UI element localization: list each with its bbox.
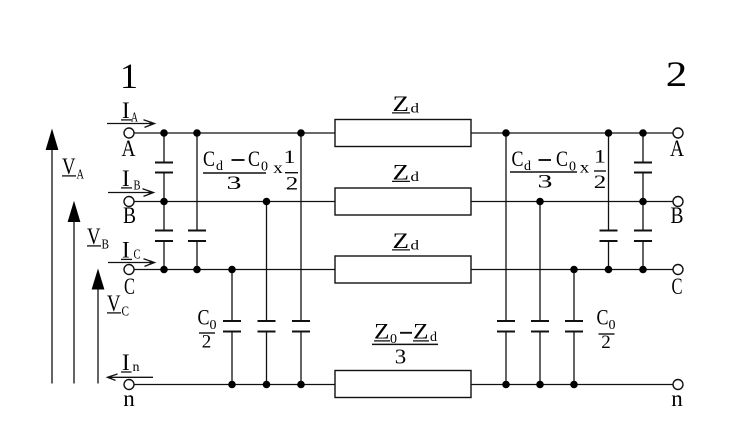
junction wire C x=232 <box>228 266 236 274</box>
label (Cd-C0)/3 x 1/2 left <box>203 146 298 195</box>
junction wire A x=164 <box>160 129 168 137</box>
junction wire C x=574 <box>570 266 578 274</box>
terminal n1 <box>124 380 134 390</box>
capacitor Cbc right (B-C) <box>634 231 652 270</box>
capacitor Cac left (A-C) <box>188 133 206 270</box>
svg-text:2: 2 <box>594 172 607 193</box>
svg-text:B: B <box>123 203 136 228</box>
svg-text:1: 1 <box>284 147 296 168</box>
svg-text:C: C <box>556 146 568 171</box>
svg-text:d: d <box>430 330 437 345</box>
svg-text:C: C <box>134 248 141 263</box>
junction wire n x=574 <box>570 381 578 389</box>
label Zd box A <box>392 91 419 117</box>
svg-text:2: 2 <box>666 54 688 94</box>
svg-text:n: n <box>133 360 140 375</box>
junction wire C x=608.5 <box>605 266 613 274</box>
capacitor Can right (A-n) <box>497 133 515 385</box>
svg-text:d: d <box>411 170 420 185</box>
capacitor Cab left (A-B) <box>155 133 173 230</box>
label C0/2 left <box>198 305 217 353</box>
junction wire A x=643 <box>639 129 647 137</box>
svg-text:A: A <box>131 111 139 126</box>
junction wire B x=164 <box>160 198 168 206</box>
svg-text:d: d <box>411 102 420 117</box>
label I_n <box>121 350 140 375</box>
svg-text:B: B <box>671 203 684 228</box>
wire B right <box>471 201 673 203</box>
svg-text:Z: Z <box>413 319 429 344</box>
svg-text:3: 3 <box>227 173 242 194</box>
capacitor Cac right (A-C) <box>600 133 618 270</box>
capacitor Can left (A-n) <box>292 133 310 385</box>
label V_C <box>107 291 129 320</box>
svg-text:C: C <box>248 146 260 171</box>
current arrow I_A <box>107 120 155 128</box>
junction wire B x=540 <box>536 198 544 206</box>
label I_B <box>121 166 141 194</box>
label Zd box B <box>392 160 419 186</box>
terminal C1 <box>124 265 134 275</box>
junction wire B x=266.5 <box>263 198 271 206</box>
svg-text:1: 1 <box>120 56 138 96</box>
voltage arrow V_A <box>46 129 59 384</box>
label (Cd-C0)/3 x 1/2 right <box>510 146 606 193</box>
capacitor Cbn left (B-n) <box>258 202 276 385</box>
svg-text:2: 2 <box>601 332 611 353</box>
junction wire A x=608.5 <box>605 129 613 137</box>
svg-text:x: x <box>580 160 590 177</box>
label C0/2 right <box>597 305 616 354</box>
wire C right <box>471 269 673 271</box>
junction wire n x=540 <box>536 381 544 389</box>
capacitor Cab right (A-B) <box>634 133 652 230</box>
svg-text:C: C <box>122 305 130 320</box>
svg-text:B: B <box>102 238 110 253</box>
capacitor Ccn left (C-n) <box>223 270 241 385</box>
current arrow I_C <box>108 259 155 267</box>
svg-text:A: A <box>77 168 85 183</box>
svg-text:C: C <box>198 305 210 330</box>
wire n right <box>471 384 673 386</box>
junction wire C x=643 <box>639 266 647 274</box>
wire B left <box>134 201 335 203</box>
junction wire n x=232 <box>228 381 236 389</box>
svg-text:3: 3 <box>395 345 407 369</box>
current arrow I_B <box>108 189 154 197</box>
svg-text:A: A <box>670 136 684 161</box>
junction wire C x=197 <box>193 266 201 274</box>
label V_A <box>62 154 85 183</box>
svg-text:C: C <box>512 146 524 171</box>
svg-text:d: d <box>216 159 223 174</box>
junction wire C x=164 <box>160 266 168 274</box>
junction wire n x=266.5 <box>263 381 271 389</box>
label I_C <box>121 238 141 263</box>
junction wire A x=506 <box>502 129 510 137</box>
svg-text:3: 3 <box>538 172 553 193</box>
junction wire A x=301 <box>297 129 305 137</box>
svg-text:n: n <box>671 386 683 411</box>
svg-text:I: I <box>122 350 130 375</box>
junction wire n x=301 <box>297 381 305 389</box>
terminal A1 <box>124 128 134 138</box>
terminal B2 <box>673 197 683 207</box>
svg-text:2: 2 <box>286 174 299 195</box>
terminal A2 <box>673 128 683 138</box>
junction wire B x=643 <box>639 198 647 206</box>
svg-text:n: n <box>123 386 135 411</box>
svg-text:2: 2 <box>202 332 212 353</box>
svg-text:C: C <box>672 274 683 299</box>
label I_A <box>121 98 139 126</box>
svg-text:x: x <box>273 160 283 177</box>
junction wire A x=197 <box>193 129 201 137</box>
impedance Zd phase C <box>335 256 471 283</box>
label Zd box C <box>392 228 419 254</box>
svg-text:1: 1 <box>594 147 606 168</box>
svg-text:Z: Z <box>374 319 390 344</box>
voltage arrow V_C <box>92 269 105 384</box>
svg-text:C: C <box>203 146 215 171</box>
wire C left <box>134 269 335 271</box>
capacitor Cbc left (B-C) <box>155 231 173 270</box>
svg-text:C: C <box>597 305 609 330</box>
capacitor Ccn right (C-n) <box>565 270 583 385</box>
svg-text:C: C <box>124 274 135 299</box>
wire n left <box>134 384 335 386</box>
impedance Zd phase B <box>335 188 471 215</box>
wire A right <box>471 132 673 134</box>
svg-text:d: d <box>411 239 420 254</box>
wire A left <box>134 132 335 134</box>
capacitor Cbn right (B-n) <box>531 202 549 385</box>
label (Z0-Zd)/3 neutral box <box>372 319 438 369</box>
svg-text:A: A <box>122 136 136 161</box>
terminal B1 <box>124 197 134 207</box>
terminal n2 <box>673 380 683 390</box>
svg-text:0: 0 <box>609 318 616 333</box>
junction wire n x=506 <box>502 381 510 389</box>
impedance (Z0-Zd)/3 neutral <box>335 371 471 398</box>
label V_B <box>87 224 109 253</box>
current arrow I_n (points left) <box>108 374 154 380</box>
voltage arrow V_B <box>68 201 81 384</box>
terminal C2 <box>673 265 683 275</box>
impedance Zd phase A <box>335 120 471 147</box>
svg-text:B: B <box>134 179 141 194</box>
